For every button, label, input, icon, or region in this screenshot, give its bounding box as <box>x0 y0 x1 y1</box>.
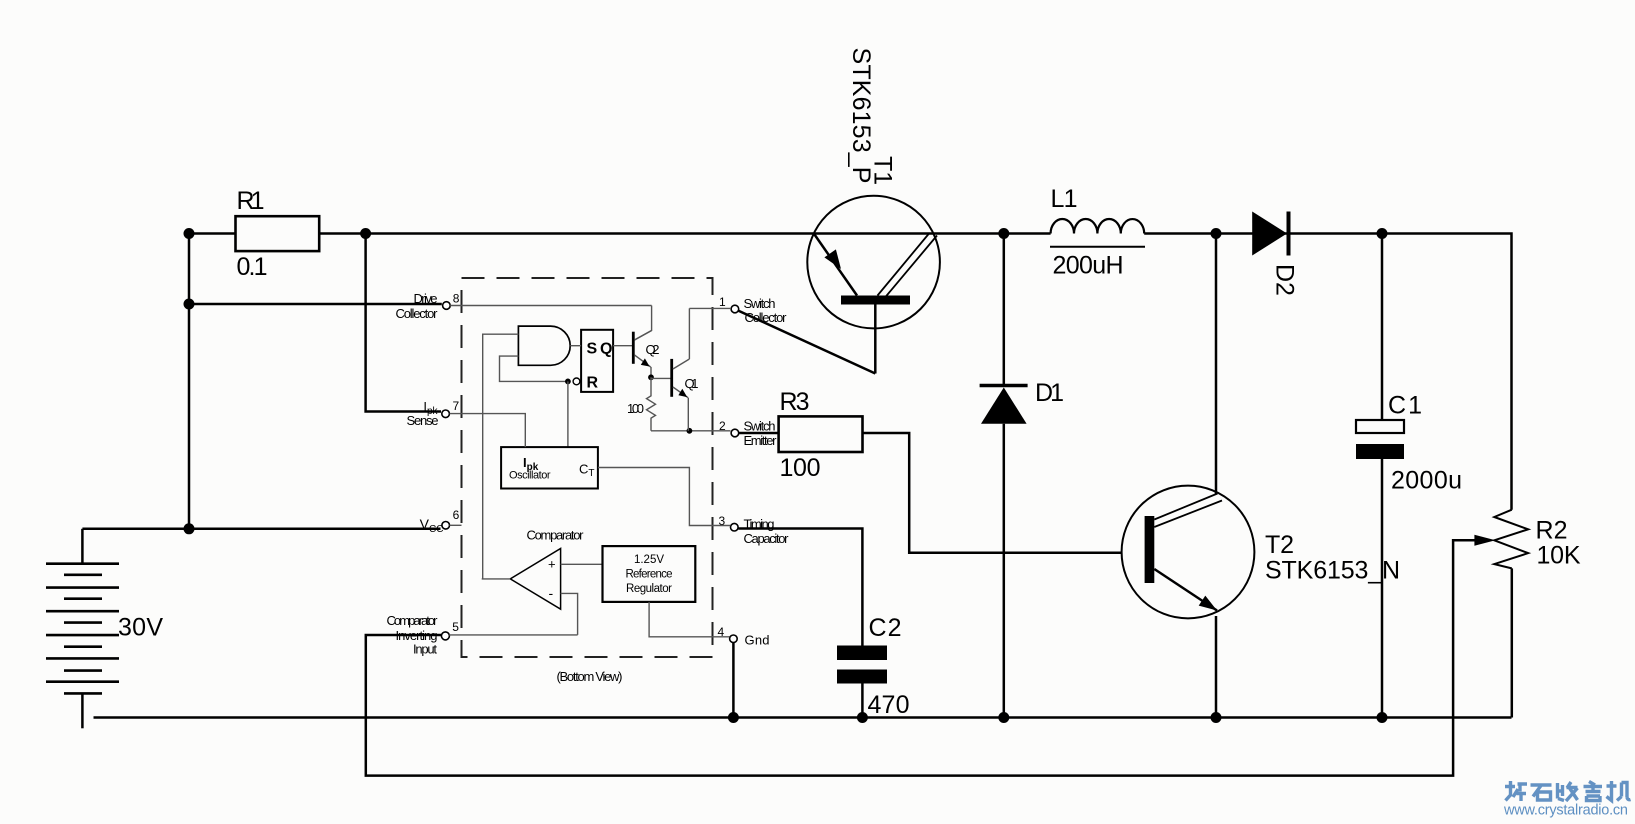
R input bubble <box>573 378 580 385</box>
wire Ipk sense branch (pin 7) <box>366 234 441 412</box>
svg-text:Reference: Reference <box>626 569 673 581</box>
transistor T1 <box>807 48 940 374</box>
capacitor C2 <box>738 529 909 720</box>
svg-text:T2: T2 <box>1265 531 1294 559</box>
transistor Q2 <box>633 331 659 375</box>
wire emitter rail to pin 2 <box>651 430 731 432</box>
pin 3 label Timing Capacitor <box>719 514 790 546</box>
wire R3 to T2 base <box>863 433 1122 553</box>
svg-text:10K: 10K <box>1537 542 1581 570</box>
pin 4 label Gnd <box>718 625 770 647</box>
node drive junction <box>184 299 195 310</box>
wire junction to Q1 base <box>651 377 671 379</box>
capacitor C1 <box>1356 234 1462 718</box>
wire drive collector (pin 8) <box>189 303 442 306</box>
svg-text:5: 5 <box>452 620 459 634</box>
svg-text:CC: CC <box>429 524 443 535</box>
IC dashed box (bottom view) <box>462 278 713 684</box>
wire pin4 gnd to rail <box>732 643 735 718</box>
svg-text:C2: C2 <box>869 614 902 642</box>
svg-text:www.crystalradio.cn: www.crystalradio.cn <box>1503 803 1628 819</box>
svg-text:100: 100 <box>780 454 821 482</box>
node switch-out C <box>998 228 1009 239</box>
svg-text:R3: R3 <box>780 388 810 416</box>
pin 1 circle <box>731 305 739 313</box>
svg-text:8: 8 <box>453 292 460 306</box>
node Q2 emitter junction <box>648 374 654 380</box>
transistor Q1 <box>672 308 699 430</box>
wire T2 collector to L1-D2 node <box>1215 234 1218 495</box>
watermark logo <box>1505 781 1631 801</box>
wire regulator to pin 4 gnd <box>649 602 729 637</box>
wire ground rail <box>94 716 1512 719</box>
svg-text:Comparator: Comparator <box>387 613 439 628</box>
wire top rail left segment <box>189 232 236 235</box>
svg-text:-: - <box>549 585 554 601</box>
svg-text:Sense: Sense <box>407 413 439 428</box>
svg-text:STK6153_N: STK6153_N <box>1265 557 1400 585</box>
svg-text:Q1: Q1 <box>685 376 699 391</box>
wire junction to oscillator top <box>567 381 569 447</box>
svg-text:100: 100 <box>627 401 644 416</box>
svg-text:D1: D1 <box>1035 379 1064 407</box>
wire Vcc rail (pin 6) <box>82 528 440 531</box>
svg-text:Input: Input <box>413 642 437 657</box>
resistor R1 <box>236 187 320 281</box>
pin 6 circle <box>442 522 450 530</box>
wire comparator - input to pin 5 <box>449 593 577 635</box>
pin 7 label Ipk Sense <box>407 399 460 428</box>
pin 2 circle <box>731 429 739 437</box>
wire T1 base to pin 1 <box>739 311 876 374</box>
wire feedback (pin 5 to R2 wiper) <box>366 540 1478 775</box>
node top-left A <box>184 228 195 239</box>
node R-input junction <box>565 379 571 385</box>
svg-text:Q: Q <box>600 341 612 358</box>
wire S input <box>570 345 581 347</box>
node top B <box>360 228 371 239</box>
svg-text:6: 6 <box>453 508 460 522</box>
wire Q output to Q2 base <box>613 345 632 347</box>
SR latch U1b <box>581 330 613 392</box>
diode D2 <box>1252 212 1299 296</box>
wiper arrowhead <box>1474 535 1495 546</box>
svg-text:C1: C1 <box>1388 392 1422 420</box>
node gnd T2 <box>1211 712 1222 723</box>
internal wire pin8 to Q2 collector <box>450 306 651 341</box>
svg-text:7: 7 <box>453 399 460 413</box>
svg-text:0.1: 0.1 <box>237 253 268 281</box>
node gnd C1 <box>1377 712 1388 723</box>
svg-text:S: S <box>587 341 598 358</box>
node Vcc junction <box>184 523 195 534</box>
svg-text:Drive: Drive <box>414 291 438 306</box>
inductor L1 <box>1050 185 1145 280</box>
wire left vertical <box>188 234 191 529</box>
svg-text:1.25V: 1.25V <box>634 554 664 566</box>
svg-text:D2: D2 <box>1271 264 1299 296</box>
pin 5 circle <box>441 632 449 640</box>
node gnd pin4 <box>728 712 739 723</box>
wire comparator + input <box>561 563 603 565</box>
svg-text:T1: T1 <box>869 156 897 185</box>
svg-text:Collector: Collector <box>396 306 439 321</box>
svg-text:470: 470 <box>868 691 910 719</box>
transistor T2 <box>1122 486 1400 619</box>
node Q1 emitter junction <box>687 428 693 434</box>
svg-text:1: 1 <box>719 295 726 309</box>
pin 1 label Switch Collector <box>719 295 787 325</box>
wire and-gate top input <box>483 334 519 579</box>
wire and-gate bottom input from oscillator <box>500 356 567 381</box>
svg-text:+: + <box>548 557 556 572</box>
svg-text:R2: R2 <box>1536 517 1568 545</box>
resistor R3 <box>739 388 863 482</box>
wire Q1 collector to pin 1 <box>689 307 731 309</box>
svg-text:Comparator: Comparator <box>527 528 585 543</box>
comparator <box>510 528 584 610</box>
svg-text:Oscillator: Oscillator <box>509 470 551 482</box>
svg-text:Switch: Switch <box>744 296 776 311</box>
reference regulator block <box>603 546 696 602</box>
pin 4 circle <box>730 635 738 643</box>
svg-text:2000u: 2000u <box>1391 467 1462 495</box>
svg-text:L1: L1 <box>1051 185 1078 213</box>
wire pin7 to oscillator <box>450 414 526 448</box>
oscillator block <box>501 447 598 488</box>
wire comparator output <box>482 578 511 580</box>
battery 30V <box>46 529 163 729</box>
svg-text:R1: R1 <box>237 187 265 215</box>
node gnd D1 <box>998 712 1009 723</box>
svg-text:Emitter: Emitter <box>744 433 778 448</box>
svg-text:Capacitor: Capacitor <box>744 531 790 546</box>
wire T2 emitter to ground rail <box>1215 616 1218 718</box>
svg-text:30V: 30V <box>118 614 163 642</box>
node gnd C2 <box>857 712 868 723</box>
resistor 100 internal <box>627 377 656 431</box>
svg-text:200uH: 200uH <box>1053 252 1124 280</box>
node L1-D2 junction <box>1211 228 1222 239</box>
svg-text:(Bottom View): (Bottom View) <box>557 669 623 684</box>
and gate U1a <box>518 326 570 365</box>
wire CT to pin 3 <box>598 468 731 526</box>
wire top rail main <box>319 234 1511 510</box>
svg-text:Q2: Q2 <box>646 342 660 357</box>
svg-text:R: R <box>587 375 599 392</box>
pin 2 label Switch Emitter <box>719 419 777 449</box>
pin 8 circle <box>443 302 451 310</box>
pin 7 circle <box>442 410 450 418</box>
svg-text:Switch: Switch <box>744 419 776 434</box>
pin 3 circle <box>731 523 739 531</box>
pin 5 label <box>387 613 460 657</box>
pin 8 label <box>396 291 460 321</box>
svg-text:Gnd: Gnd <box>745 632 770 647</box>
node output D <box>1377 228 1388 239</box>
pin 6 label Vcc <box>420 508 462 535</box>
svg-text:Regulator: Regulator <box>626 583 672 595</box>
potentiometer R2 <box>1494 510 1581 718</box>
diode D1 <box>980 234 1064 718</box>
